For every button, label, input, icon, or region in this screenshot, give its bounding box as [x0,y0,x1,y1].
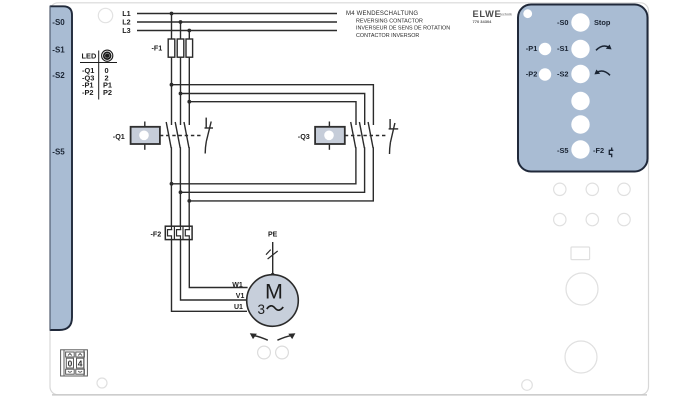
table divider lines [80,62,117,64]
svg-text:M4 WENDESCHALTUNG: M4 WENDESCHALTUNG [346,11,418,17]
contact Q3 auxiliary NC interlock [389,119,399,154]
left control strip panel [50,6,72,330]
svg-text:Stop: Stop [594,18,611,27]
svg-text:LED: LED [82,52,97,61]
wire branch L2 to Q3 [181,94,365,126]
contactor Q3 main contact pole 3 [368,122,373,148]
wire Q3 pole2 return to V1 net [181,147,365,192]
wire L3 rail [137,30,337,32]
digit wheel 2 [76,352,85,357]
wire PE to motor [272,242,274,275]
wire Q1 pole1 output [170,147,172,226]
svg-text:ELWE: ELWE [473,9,502,19]
pilot lamp hole P2 [539,68,551,80]
svg-text:3: 3 [258,302,266,317]
junction V1 net [179,190,183,194]
contact Q1 auxiliary NC interlock [205,118,214,154]
svg-text:-Q1: -Q1 [113,132,125,141]
svg-text:-S2: -S2 [52,71,65,80]
wire Q1 actuator (dashed) [160,135,203,137]
overload reset glyph [609,148,613,158]
wire F2 to motor U1 [172,240,248,312]
contactor Q1 main contact pole 2 [175,122,180,148]
junction PE at motor frame [271,273,275,277]
svg-text:4: 4 [78,358,83,368]
junction L2 tap [179,20,183,24]
svg-text:M: M [265,280,283,304]
svg-text:0: 0 [68,358,73,368]
svg-text:P2: P2 [103,88,112,97]
junction L1 tap [170,12,174,16]
mounting hole row 2 left [554,213,566,225]
pushbutton hole (spare upper) [571,92,589,110]
wire branch L1 to Q3 [172,85,374,125]
svg-text:V1: V1 [236,293,245,300]
svg-text:REVERSING CONTACTOR: REVERSING CONTACTOR [356,18,423,24]
motor M 3~ [247,275,299,327]
wire L3 drop to fuse F1 [188,31,190,40]
svg-text:-S5: -S5 [52,147,65,156]
svg-text:-F1: -F1 [152,44,163,53]
svg-text:-Q3: -Q3 [298,132,310,141]
mounting hole row 2 right [618,213,630,225]
rectangular cutout [571,247,590,260]
wire F1 pole3 to Q1 contact [188,57,190,125]
svg-text:770 34304: 770 34304 [473,19,493,24]
thermal element pole 3 [185,226,190,239]
junction branch L2 [179,92,183,96]
wire Q1 pole3 output [188,147,190,226]
mounting hole top left [98,8,112,22]
pushbutton hole S0 [571,13,589,31]
svg-text:-F2: -F2 [593,146,604,155]
small hole bottom right area [522,380,533,391]
svg-text:-S0: -S0 [52,18,65,27]
ccw rotation arrow [254,336,268,341]
clockwise rotation arrow [596,45,612,51]
wire L1 rail [137,13,337,15]
page bottom edge line [52,394,647,396]
wire L2 rail [137,21,337,23]
junction branch L1 [170,83,174,87]
contactor Q3 main contact pole 2 [359,122,364,148]
round cutout upper [566,273,598,305]
mounting hole row 1 right [618,183,630,195]
svg-text:L3: L3 [122,26,130,35]
svg-text:U1: U1 [234,304,243,311]
wire Q3 actuator (dashed) [345,135,387,137]
wire Q3 pole1 return to U1 net [172,147,356,184]
thermal element pole 1 [168,226,173,239]
mounting hole row 1 mid [586,183,598,195]
svg-text:-F2: -F2 [151,230,162,239]
overload relay F2 [165,226,192,239]
shaft hole left under motor [258,346,271,359]
junction W1 net [187,199,191,203]
svg-text:INVERSEUR DE SENS DE ROTATION: INVERSEUR DE SENS DE ROTATION [356,26,450,32]
wire Q3 pole3 return to W1 net [189,147,373,201]
svg-text:CONTACTOR INVERSOR: CONTACTOR INVERSOR [356,33,419,39]
svg-text:PE: PE [268,231,278,238]
chevrons [68,354,72,356]
LED legend table [80,50,117,99]
svg-text:-P1: -P1 [526,44,538,53]
panel pilot hole [523,9,532,18]
operator button panel [518,5,648,172]
logo ELWE [473,9,512,19]
pilot lamp hole P1 [539,43,551,55]
rotation arrows under motor [250,333,296,340]
svg-text:technik: technik [500,13,512,17]
counter-clockwise rotation arrow [594,70,610,76]
coil Q1 [131,122,160,150]
wire F2 to motor V1 [181,240,247,300]
contactor Q1 main contact pole 1 [166,122,171,148]
small hole bottom left area [97,378,107,388]
svg-text:-S5: -S5 [557,146,569,155]
shaft hole right under motor [276,346,289,359]
svg-text:-S0: -S0 [557,18,569,27]
mounting hole row 1 left [554,183,566,195]
svg-text:W1: W1 [232,282,243,289]
wire F1 pole2 to Q1 contact [180,57,182,125]
wire branch L3 to Q3 [189,102,356,125]
digit wheel 1 [66,352,75,357]
wire F1 pole1 to Q1 contact [171,57,173,125]
mounting hole row 2 mid [586,213,598,225]
wire L1 drop to fuse F1 [171,14,173,40]
thermal element pole 2 [177,226,182,239]
svg-text:-S1: -S1 [557,44,569,53]
sine symbol [267,306,283,310]
svg-text:-P2: -P2 [82,88,94,97]
junction U1 net [170,182,174,186]
PE conductor marking (slash) [266,250,278,259]
pushbutton hole (spare lower) [571,115,589,133]
fuse F1 (3 poles) [168,39,192,57]
svg-text:-S2: -S2 [557,69,569,78]
round cutout lower [565,341,597,373]
junction L3 tap [187,29,191,33]
coil Q3 [315,122,345,150]
pushbutton hole S1 [571,40,589,58]
pushbutton hole S2 [571,65,589,83]
wire Q1 pole2 output [179,147,181,226]
svg-text:-P2: -P2 [526,69,538,78]
contactor Q1 main contact pole 3 [184,122,189,148]
svg-text:-S1: -S1 [52,45,65,54]
wire F2 to motor W1 [189,240,247,288]
cw rotation arrow [277,336,291,341]
contactor Q3 main contact pole 1 [351,122,356,148]
pushbutton hole S5 [571,140,589,158]
thumbwheel preset switch (04) [61,350,88,376]
junction branch L3 [187,100,191,104]
wire L2 drop to fuse F1 [180,22,182,40]
LED symbol [102,50,113,61]
